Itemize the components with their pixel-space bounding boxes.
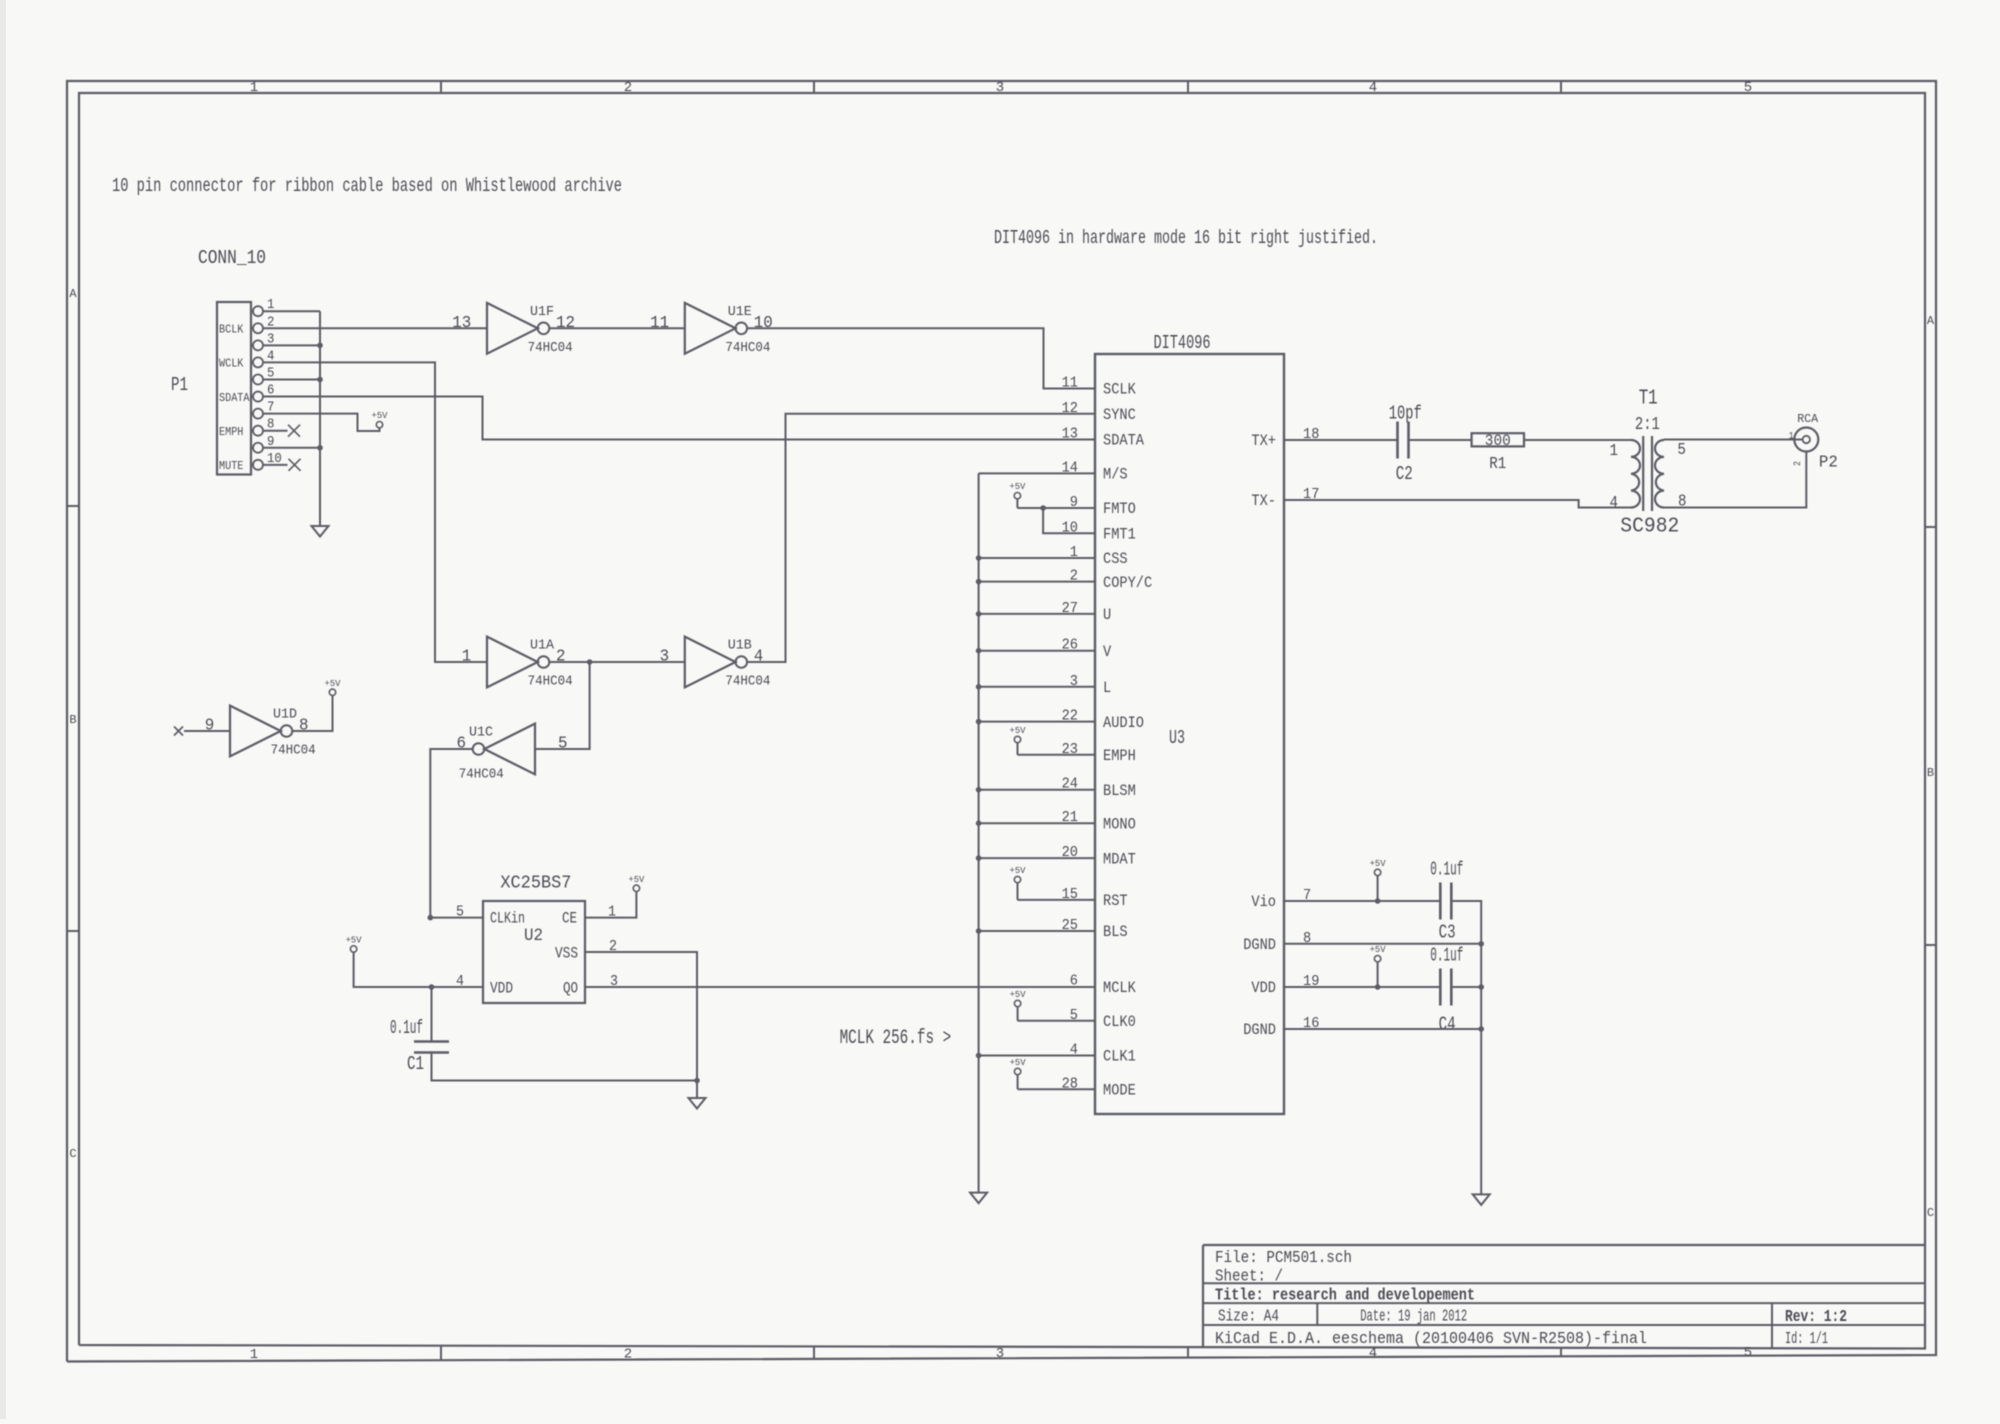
wire P1 pin3 to bus [263,344,320,346]
wire U1D output to +5V [293,696,333,732]
svg-text:RCA: RCA [1797,412,1819,426]
+5V symbol at Vio [1374,869,1380,875]
svg-text:U1B: U1B [728,639,752,654]
inverter U1C 74HC04 [484,724,535,775]
svg-text:C4: C4 [1439,1014,1456,1036]
wire U1F output to U1E input [550,327,685,329]
capacitor C1 0.1uf [414,1040,449,1043]
svg-text:U1E: U1E [728,305,752,320]
svg-text:+5V: +5V [1010,725,1026,736]
svg-text:74HC04: 74HC04 [725,675,770,690]
wire bus to U3 pin [979,650,1095,652]
svg-text:FMTO: FMTO [1103,500,1136,518]
connector P1 pin 5 [251,378,253,380]
connector P1 pin 1 [251,310,253,312]
svg-text:DIT4096 in hardware mode 16 bi: DIT4096 in hardware mode 16 bit right ju… [994,227,1378,249]
inverter U1A 74HC04 [487,637,538,688]
svg-text:CLK0: CLK0 [1103,1013,1136,1031]
svg-text:P2: P2 [1819,453,1838,472]
svg-text:2: 2 [624,1347,632,1363]
svg-text:CLK1: CLK1 [1103,1048,1136,1066]
svg-text:8: 8 [299,717,309,736]
svg-text:3: 3 [996,80,1004,96]
left bus vertical wire of U3 [978,473,980,1192]
ground symbol below P1 [312,526,329,537]
+5V symbol at RST [1014,876,1020,882]
svg-text:MODE: MODE [1103,1082,1136,1100]
svg-text:AUDIO: AUDIO [1103,714,1144,732]
ground bus vertical at P1 [319,311,321,526]
svg-text:U1F: U1F [530,305,554,320]
svg-text:MCLK: MCLK [1103,979,1136,997]
svg-text:2:1: 2:1 [1635,415,1660,435]
transformer T1 core [1642,436,1644,511]
svg-text:+5V: +5V [372,410,388,421]
wire bus to U3 pin [979,581,1095,583]
U2 pin 2 VSS wire [585,952,697,1081]
+5V symbol at FMTO/FMT1 [1014,493,1020,499]
svg-text:BCLK: BCLK [219,323,243,336]
wire U3 Vio pin 7 to C3 [1284,900,1441,902]
svg-text:MCLK 256.fs >: MCLK 256.fs > [840,1027,952,1050]
svg-text:13: 13 [452,314,471,333]
svg-text:4: 4 [754,648,764,667]
svg-text:5: 5 [1677,441,1686,460]
svg-text:SDATA: SDATA [219,392,250,405]
connector P1 pin 9 [251,447,253,449]
svg-text:KiCad E.D.A. eeschema (201004: KiCad E.D.A. eeschema (20100406 SVN-R250… [1215,1330,1647,1349]
U2 pin 5 CLKin wire [430,917,483,919]
svg-text:6: 6 [1070,973,1078,990]
svg-text:+5V: +5V [1010,865,1026,876]
wire U1C output to U2 CLKin [430,749,472,918]
wire T1 secondary pin 8 to P2 pin 2 [1664,451,1806,507]
svg-text:4: 4 [1369,80,1377,96]
svg-text:2: 2 [556,648,566,667]
svg-text:COPY/C: COPY/C [1103,574,1152,592]
wire P1 pin2 (BCLK) to U1F input [263,327,487,329]
svg-text:RST: RST [1103,892,1128,910]
wire bus to U3 pin [979,930,1095,932]
svg-text:CSS: CSS [1103,550,1128,568]
svg-text:2: 2 [624,80,632,96]
wire bus to U3 pin [979,822,1095,824]
IC U3 DIT4096 body [1095,354,1284,1114]
svg-text:C1: C1 [407,1053,424,1075]
U2 pin 3 QO wire to DIT4096 MCLK [585,986,1095,988]
U2 pin 4 VDD wire from +5V [354,952,483,987]
wire bus to U3 pin [979,1055,1095,1057]
wire bus to U3 pin [979,686,1095,688]
inverter U1B 74HC04 [685,637,736,688]
svg-text:11: 11 [1062,375,1078,392]
svg-text:QO: QO [563,980,578,998]
svg-text:1: 1 [608,904,616,921]
svg-text:MONO: MONO [1103,815,1136,833]
svg-text:DGND: DGND [1243,1021,1276,1039]
svg-text:5: 5 [1744,80,1752,96]
svg-text:WCLK: WCLK [219,358,243,371]
no-connect X at P1 pin8 [263,430,288,432]
svg-text:MDAT: MDAT [1103,850,1136,868]
no-connect X at P1 pin10 [263,464,288,466]
wire junction U1A output down to U1C input [535,662,590,749]
svg-text:5: 5 [558,735,568,754]
svg-text:+5V: +5V [628,874,644,885]
wire bus to U3 pin [979,557,1095,559]
svg-text:U1C: U1C [469,726,493,741]
svg-text:+5V: +5V [346,935,362,946]
wire T1 secondary pin 5 to P2 RCA [1664,439,1803,441]
svg-text:Rev: 1:2: Rev: 1:2 [1785,1308,1847,1327]
svg-text:+5V: +5V [1370,858,1386,869]
svg-text:SCLK: SCLK [1103,381,1136,399]
svg-text:4: 4 [456,973,464,990]
wire bus to U3 pin [979,857,1095,859]
+5V symbol at U1D output [329,689,335,695]
svg-text:EMPH: EMPH [1103,747,1136,765]
wire VDD branch down to C1 [431,987,433,1042]
ground symbol below U2 network [696,1081,698,1099]
connector P1 pin 3 [251,344,253,346]
svg-text:3: 3 [610,973,618,990]
svg-text:8: 8 [1678,493,1687,512]
connector P1 pin 2 [251,327,253,329]
svg-text:U1A: U1A [530,639,555,654]
svg-text:74HC04: 74HC04 [271,744,316,759]
svg-text:U2: U2 [524,926,543,946]
transformer T1 primary winding [1631,440,1640,508]
svg-text:Vio: Vio [1251,893,1276,911]
svg-text:+5V: +5V [325,678,341,689]
svg-text:+5V: +5V [1370,944,1386,955]
+5V symbol at MODE [1014,1068,1020,1074]
wire bus to U3 pin [979,721,1095,723]
svg-text:74HC04: 74HC04 [725,341,770,356]
wire U3 DGND pin 8 to vertical [1284,943,1481,945]
wire C4 to right vertical [1451,986,1481,988]
svg-text:Title: research and developeme: Title: research and developement [1215,1287,1475,1306]
svg-text:74HC04: 74HC04 [459,768,504,783]
capacitor C3 0.1uf [1439,883,1442,920]
wire U1E output to DIT4096 SCLK pin 11 [748,328,1095,388]
svg-text:U: U [1103,606,1111,624]
svg-text:CLKin: CLKin [490,910,525,928]
svg-text:C: C [69,1147,76,1161]
svg-text:10pf: 10pf [1389,403,1422,425]
connector P1 pin 4 [251,361,253,363]
svg-text:4: 4 [1610,494,1619,513]
wire U3 TX+ pin 18 to C2 [1284,439,1397,441]
+5V symbol at U2 VDD [350,946,356,952]
wire C1 bottom to ground corner [432,1053,698,1081]
svg-text:C2: C2 [1396,463,1413,485]
connector P1 pin 10 [251,464,253,466]
svg-text:VDD: VDD [1251,979,1276,997]
wire bus to U3 pin [979,613,1095,615]
svg-text:U3: U3 [1169,727,1185,749]
svg-text:0.1uf: 0.1uf [1430,858,1463,880]
svg-text:T1: T1 [1639,388,1658,411]
+5V symbol at EMPH [1014,736,1020,742]
svg-text:6: 6 [457,735,467,754]
svg-text:TX-: TX- [1251,492,1276,510]
svg-text:2: 2 [609,938,617,955]
svg-text:M/S: M/S [1103,466,1128,484]
svg-text:A: A [69,287,77,301]
svg-text:Id: 1/1: Id: 1/1 [1785,1330,1828,1349]
svg-text:CONN_10: CONN_10 [198,247,266,269]
+5V symbol at CLK0 [1014,1000,1020,1006]
svg-text:DGND: DGND [1243,936,1276,954]
svg-text:0.1uf: 0.1uf [390,1017,423,1039]
wire U3 DGND pin 16 to vertical [1284,1028,1481,1030]
svg-text:TX+: TX+ [1251,432,1276,450]
svg-text:VSS: VSS [555,945,578,963]
wire P1 pin1 to ground bus [263,310,320,312]
wire bus to U3 pin [979,789,1095,791]
wire P1 pin5 to bus [263,378,320,380]
svg-text:FMT1: FMT1 [1103,526,1136,544]
wire C2 to R1 [1409,439,1472,441]
no-connect X at U1D input [174,727,183,736]
svg-text:2: 2 [1793,461,1804,466]
svg-text:SC982: SC982 [1620,516,1679,539]
svg-text:B: B [1927,766,1934,780]
svg-text:B: B [69,713,76,727]
ground symbol below C3/C4 vertical [1473,1194,1490,1205]
svg-text:+5V: +5V [1010,989,1026,1000]
svg-text:13: 13 [1062,426,1078,443]
wire stub U1D input [184,730,230,732]
svg-text:9: 9 [205,717,215,736]
wire P1 pin6 (SDATA) to DIT4096 SDATA [263,397,1095,440]
svg-text:300: 300 [1485,432,1511,450]
inverter U1F 74HC04 [487,303,538,354]
svg-text:U1D: U1D [273,708,297,723]
svg-text:R1: R1 [1489,455,1506,474]
transformer T1 secondary winding [1655,440,1664,508]
svg-text:P1: P1 [171,374,188,396]
svg-text:12: 12 [556,314,575,333]
svg-text:VDD: VDD [490,980,513,998]
svg-text:SYNC: SYNC [1103,406,1136,424]
capacitor C4 0.1uf [1439,969,1442,1006]
svg-text:File: PCM501.sch: File: PCM501.sch [1215,1249,1352,1268]
wire P1 pin4 (WCLK) to U1A input [263,362,487,662]
wire R1 to T1 primary [1524,439,1631,441]
svg-text:5: 5 [1744,1345,1752,1361]
svg-text:+5V: +5V [1010,1057,1026,1068]
svg-text:10: 10 [754,314,773,333]
svg-text:V: V [1103,643,1112,661]
ground symbol below U3 left bus [970,1193,987,1204]
wire P1 pin9 to bus [263,447,320,449]
svg-text:C3: C3 [1439,922,1456,944]
svg-text:C: C [1927,1206,1934,1220]
wire U1A output to U1B input [550,661,685,663]
svg-text:A: A [1927,314,1935,328]
svg-text:1: 1 [462,648,472,667]
svg-text:Size: A4: Size: A4 [1218,1307,1279,1326]
+5V symbol at VDD [1374,956,1380,962]
svg-text:1: 1 [1610,442,1619,461]
svg-text:1: 1 [1789,431,1794,442]
svg-text:BLS: BLS [1103,923,1128,941]
inverter U1D 74HC04 [230,706,281,757]
wire +5V to FMTO and FMT1 [1016,499,1018,508]
svg-text:EMPH: EMPH [219,426,243,439]
svg-text:+5V: +5V [1009,481,1025,492]
wire P1 pin7 to +5V [263,414,380,431]
svg-text:SDATA: SDATA [1103,432,1144,450]
svg-text:0.1uf: 0.1uf [1430,944,1463,966]
wire U1B output to DIT4096 SYNC pin 12 [748,414,1095,662]
svg-text:5: 5 [456,904,464,921]
svg-text:Sheet: /: Sheet: / [1215,1268,1283,1287]
U2 pin 1 CE wire to +5V [585,892,636,918]
wire C3 to right vertical [1451,901,1481,1194]
+5V symbol at P1 pin7 [376,422,382,428]
svg-text:1: 1 [250,1347,258,1363]
svg-text:MUTE: MUTE [219,460,243,473]
svg-text:11: 11 [650,314,669,333]
wire U3 TX- pin 17 to T1 primary pin 4 [1284,500,1631,508]
svg-text:BLSM: BLSM [1103,782,1136,800]
oscillator U2 body [483,901,585,1003]
+5V symbol at U2 CE [633,885,639,891]
svg-text:74HC04: 74HC04 [528,675,573,690]
svg-text:3: 3 [660,648,670,667]
svg-text:3: 3 [996,1346,1004,1362]
svg-text:10 pin connector for ribbon ca: 10 pin connector for ribbon cable based … [112,175,622,197]
connector P1 pin 6 [251,396,253,398]
svg-text:12: 12 [1062,400,1078,417]
wire M/S to bus [979,472,1095,474]
svg-text:L: L [1103,679,1111,697]
title block frame [1203,1244,1925,1246]
capacitor C2 10pf [1396,422,1399,459]
svg-text:CE: CE [562,910,577,928]
connector P1 body [217,302,251,475]
svg-text:Date: 19 jan 2012: Date: 19 jan 2012 [1360,1307,1467,1326]
connector P2 RCA jack [1794,428,1818,452]
connector P1 pin 7 [251,413,253,415]
wire U3 VDD pin 19 to C4 [1284,986,1441,988]
connector P1 pin 8 [251,430,253,432]
svg-text:74HC04: 74HC04 [528,341,573,356]
inverter U1E 74HC04 [685,303,736,354]
resistor R1 300 [1472,433,1524,446]
svg-text:DIT4096: DIT4096 [1154,332,1211,354]
svg-text:1: 1 [250,80,258,96]
svg-text:XC25BS7: XC25BS7 [500,873,571,894]
